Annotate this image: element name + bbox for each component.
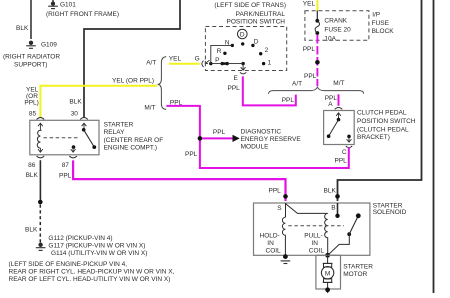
- svg-text:G112 (PICKUP-VIN 4): G112 (PICKUP-VIN 4): [48, 235, 112, 242]
- svg-text:POSITION SWITCH: POSITION SWITCH: [227, 19, 286, 26]
- brace A/T-M/T split: [268, 87, 363, 94]
- svg-text:M/T: M/T: [333, 80, 344, 87]
- motor armature circle M: [321, 267, 333, 279]
- brace A/T-M/T merge: [158, 57, 167, 110]
- relay terminal 85 pin: [37, 118, 45, 130]
- svg-text:PPL: PPL: [59, 173, 72, 180]
- svg-text:MODULE: MODULE: [241, 143, 269, 150]
- svg-text:PPL: PPL: [303, 46, 316, 53]
- svg-text:M: M: [325, 270, 330, 277]
- starter motor box: [316, 255, 341, 289]
- svg-text:2: 2: [265, 47, 269, 54]
- svg-text:COIL: COIL: [266, 248, 282, 255]
- junction node DERM tap: [198, 136, 203, 141]
- svg-text:REAR OF RIGHT CYL. HEAD-PICKUP: REAR OF RIGHT CYL. HEAD-PICKUP VIN W OR …: [9, 269, 175, 276]
- relay terminal 30 pin: [80, 118, 88, 130]
- svg-text:G109: G109: [41, 42, 57, 49]
- svg-text:D: D: [254, 38, 259, 45]
- svg-text:IN: IN: [267, 240, 274, 247]
- svg-text:G117 (PICKUP-VIN W OR VIN X): G117 (PICKUP-VIN W OR VIN X): [48, 243, 145, 250]
- wire YEL (OR PPL) to relay terminal 85: [40, 86, 157, 117]
- svg-text:PARK/NEUTRAL: PARK/NEUTRAL: [236, 11, 286, 18]
- svg-text:A: A: [328, 101, 333, 108]
- wire PPL M/T branch to clutch switch A: [338, 94, 340, 106]
- svg-text:SUPPORT): SUPPORT): [14, 61, 47, 68]
- svg-text:(CLUTCH PEDAL: (CLUTCH PEDAL: [357, 127, 409, 134]
- starter solenoid box: [254, 203, 370, 255]
- wire BLK to G109: [30, 0, 32, 39]
- wire BLK from relay 86: [39, 160, 41, 202]
- svg-text:D: D: [240, 32, 245, 39]
- svg-text:RELAY: RELAY: [104, 129, 125, 136]
- svg-text:G: G: [195, 56, 200, 63]
- svg-text:(LEFT SIDE OF ENGINE-PICKUP VI: (LEFT SIDE OF ENGINE-PICKUP VIN 4,: [9, 261, 128, 268]
- fuse CRANK FUSE 20 10A: [315, 19, 319, 35]
- svg-text:CLUTCH PEDAL: CLUTCH PEDAL: [357, 110, 407, 117]
- svg-text:PPL: PPL: [282, 97, 295, 104]
- svg-text:BLK: BLK: [26, 172, 39, 179]
- svg-text:A/T: A/T: [146, 60, 156, 67]
- svg-text:85: 85: [29, 110, 37, 117]
- svg-text:STARTER: STARTER: [104, 121, 134, 128]
- svg-text:(RIGHT FRONT FRAME): (RIGHT FRONT FRAME): [46, 11, 119, 18]
- svg-text:10A: 10A: [324, 35, 336, 42]
- ground G112/G117/G114: [36, 243, 46, 251]
- svg-text:BRACKET): BRACKET): [357, 134, 390, 141]
- svg-text:R: R: [217, 48, 222, 55]
- ground G109: [26, 41, 36, 49]
- wire PPL arrow to DERM: [202, 137, 233, 139]
- motor brush bottom: [324, 279, 332, 283]
- svg-text:BLOCK: BLOCK: [372, 28, 395, 35]
- svg-text:POSITION SWITCH: POSITION SWITCH: [357, 118, 416, 125]
- svg-text:(RIGHT RADIATOR: (RIGHT RADIATOR: [3, 53, 60, 60]
- svg-text:BLK: BLK: [324, 188, 337, 195]
- I/P fuse block box: [305, 11, 369, 41]
- svg-text:PPL: PPL: [213, 129, 226, 136]
- relay coil: [37, 130, 41, 148]
- svg-text:86: 86: [28, 162, 36, 169]
- solenoid switch arm: [347, 232, 351, 236]
- junction node on BLK: [38, 200, 43, 205]
- wire PPL from E to A/T brace arm: [243, 76, 296, 105]
- svg-text:PPL: PPL: [185, 151, 198, 158]
- motor brush top: [324, 263, 332, 267]
- diagonal S to pull-in coil: [286, 204, 328, 214]
- node at motor bottom: [325, 287, 330, 292]
- svg-text:C: C: [342, 149, 347, 156]
- relay switch: [82, 128, 86, 132]
- svg-text:ENGINE COMPT.): ENGINE COMPT.): [104, 145, 157, 152]
- relay coil link dashed: [44, 137, 80, 139]
- junction node on PPL: [315, 60, 320, 65]
- svg-text:BLK: BLK: [16, 25, 29, 32]
- clutch switch contacts: [337, 118, 341, 122]
- svg-text:P: P: [215, 57, 219, 64]
- svg-text:ENERGY RESERVE: ENERGY RESERVE: [241, 136, 302, 143]
- svg-text:B: B: [331, 205, 335, 212]
- wire YEL A/T branch to P/N switch G: [169, 63, 200, 65]
- svg-text:PPL: PPL: [335, 158, 348, 165]
- P/N switch contact dots: [209, 42, 265, 65]
- svg-text:(CENTER REAR OF: (CENTER REAR OF: [104, 137, 164, 144]
- wire PPL dashed from fuse to brace: [316, 35, 318, 86]
- svg-text:87: 87: [62, 162, 70, 169]
- svg-text:G114 (UTILITY-VIN W OR VIN X): G114 (UTILITY-VIN W OR VIN X): [51, 250, 147, 257]
- svg-text:YEL: YEL: [303, 0, 316, 7]
- hold-in coil: [282, 217, 285, 255]
- svg-text:STARTER: STARTER: [343, 263, 373, 270]
- node pull-in coil to motor: [325, 253, 330, 258]
- svg-text:REAR OF LEFT CYL. HEAD-UTILITY: REAR OF LEFT CYL. HEAD-UTILITY VIN W OR …: [9, 276, 171, 283]
- svg-text:E: E: [234, 75, 239, 82]
- wire BLK dashed to ground: [39, 205, 41, 243]
- P/N switch gear indicator circle D: [238, 29, 248, 39]
- wire battery cable full height: [433, 0, 435, 293]
- arm link wire: [328, 234, 350, 255]
- svg-text:G101: G101: [60, 2, 76, 9]
- wire motor to bottom: [327, 282, 329, 293]
- svg-text:YEL (OR PPL): YEL (OR PPL): [112, 77, 154, 84]
- wire B internal: [337, 203, 339, 216]
- clutch pedal position switch box: [324, 111, 355, 145]
- park/neutral position switch box: [205, 27, 286, 71]
- svg-text:HOLD-: HOLD-: [260, 232, 280, 239]
- wire YEL into fuse: [316, 0, 318, 11]
- svg-text:BLK: BLK: [69, 99, 82, 106]
- pull-in coil: [325, 213, 328, 255]
- svg-text:1: 1: [268, 60, 272, 67]
- wire BLK battery feed to solenoid B: [338, 0, 422, 201]
- svg-text:COIL: COIL: [309, 248, 325, 255]
- svg-text:A/T: A/T: [292, 81, 302, 88]
- svg-text:DIAGNOSTIC: DIAGNOSTIC: [241, 128, 282, 135]
- svg-text:YEL: YEL: [169, 56, 182, 63]
- svg-text:PPL): PPL): [24, 99, 38, 106]
- svg-text:M/T: M/T: [144, 104, 155, 111]
- svg-text:30: 30: [71, 110, 79, 117]
- node hold-in coil ground: [283, 254, 288, 259]
- node on S wire: [283, 194, 288, 199]
- svg-text:IN: IN: [311, 240, 318, 247]
- node on B wire: [335, 194, 340, 199]
- wire PPL from relay 87 to solenoid S: [73, 160, 285, 201]
- svg-text:PPL: PPL: [304, 73, 317, 80]
- terminal E pin: [240, 64, 246, 74]
- svg-text:BLK: BLK: [25, 227, 38, 234]
- svg-text:S: S: [277, 205, 282, 212]
- clutch switch terminal A pin: [335, 107, 343, 119]
- starter relay box: [30, 120, 99, 155]
- ground G101: [48, 0, 58, 9]
- wire to motor brush: [327, 255, 329, 263]
- svg-text:PPL: PPL: [269, 188, 282, 195]
- wire BLK from top to relay terminal 30: [84, 0, 180, 117]
- clutch switch terminal C pin: [346, 136, 352, 147]
- wire PPL M/T loop from clutch C to DERM junction to brace: [166, 106, 348, 168]
- svg-text:SOLENOID: SOLENOID: [373, 209, 407, 216]
- relay terminal 87 pin: [69, 147, 77, 158]
- svg-text:FUSE: FUSE: [372, 20, 390, 27]
- svg-text:CRANK: CRANK: [324, 17, 347, 24]
- svg-text:(LEFT SIDE OF TRANS): (LEFT SIDE OF TRANS): [214, 2, 286, 9]
- svg-text:MOTOR: MOTOR: [343, 271, 367, 278]
- coil link dashed: [288, 225, 344, 227]
- svg-text:FUSE 20: FUSE 20: [324, 26, 351, 33]
- ground under solenoid: [281, 261, 291, 264]
- svg-text:I/P: I/P: [372, 12, 380, 19]
- relay terminal 86 pin: [37, 148, 45, 158]
- svg-text:PPL: PPL: [228, 85, 241, 92]
- connector G of park/neutral switch: [202, 60, 210, 67]
- wire S internal: [285, 203, 287, 217]
- P/N switch internal wiring: [211, 45, 232, 63]
- svg-text:PULL-: PULL-: [304, 232, 322, 239]
